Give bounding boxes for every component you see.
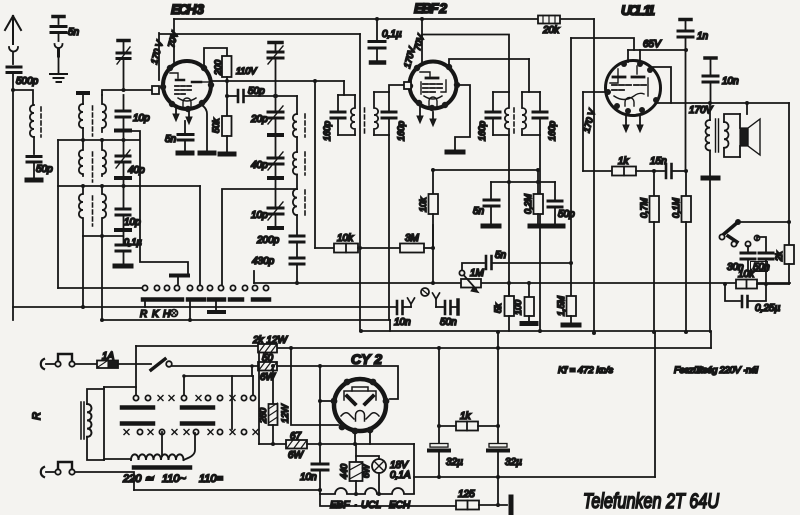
tone switch contacts <box>719 234 724 239</box>
wire IF2 secondary to EBF2 grid <box>389 85 404 92</box>
wire EBF2 screen feed lower <box>421 36 423 62</box>
resistor 2k <box>785 245 795 264</box>
pickup jack Y right <box>433 293 440 299</box>
svg-text:1M: 1M <box>470 268 485 279</box>
wire 200 bottom to 50k <box>226 77 228 116</box>
antenna <box>5 16 21 44</box>
node rail to EBF2 <box>420 17 424 21</box>
svg-text:H: H <box>163 309 171 320</box>
svg-text:110~: 110~ <box>162 473 187 485</box>
svg-text:0,1A: 0,1A <box>390 470 411 481</box>
node <box>295 281 299 285</box>
resistor 200 <box>222 56 232 77</box>
capacitor 10n pickup <box>397 301 403 314</box>
tuning gang cap osc top bar <box>269 41 282 45</box>
svg-text:40p: 40p <box>251 160 268 171</box>
svg-text:EBF 2: EBF 2 <box>414 0 447 16</box>
svg-text:1n: 1n <box>697 31 709 42</box>
wire to band switch first contact <box>58 287 142 289</box>
node <box>100 138 104 142</box>
resistor 5k <box>505 296 515 316</box>
wire primary top <box>87 389 104 404</box>
antenna coupling hook <box>9 47 18 52</box>
svg-text:0,25µ: 0,25µ <box>755 303 780 314</box>
wire primary to ground <box>709 151 711 177</box>
chassis ground bar <box>509 497 514 514</box>
ground bar 5n <box>178 151 192 156</box>
node <box>250 364 254 368</box>
svg-text:430p: 430p <box>252 256 275 267</box>
node <box>684 48 688 52</box>
capacitor 5n <box>51 27 66 33</box>
wire junction line y140 <box>58 139 139 141</box>
capacitor 0.25u <box>725 284 740 301</box>
svg-text:1,5M: 1,5M <box>556 295 566 316</box>
variable trimmer capacitor <box>117 53 130 59</box>
svg-text:200: 200 <box>213 60 223 76</box>
capacitor 0.1u osc <box>116 245 130 251</box>
wire IF2 feed from 110V line <box>343 81 345 95</box>
voltage selector bars row1 <box>122 405 213 410</box>
node <box>684 330 688 334</box>
speaker <box>740 128 748 146</box>
IF3 left cell top <box>493 91 509 93</box>
wire primary bottom <box>87 437 104 460</box>
node <box>536 168 540 172</box>
resistor 3M <box>400 244 424 253</box>
node <box>225 79 229 83</box>
capacitor 40p trimmer <box>268 158 283 164</box>
wire mains bottom bus <box>134 489 320 491</box>
capacitor 32u second <box>489 444 507 448</box>
wire ECH3 plate feed <box>173 19 175 62</box>
wire selector feed top <box>136 345 258 347</box>
wire HT line y348 <box>277 347 711 349</box>
transformer primary core <box>81 402 84 439</box>
svg-text:2k: 2k <box>774 251 784 262</box>
wire tone caps to 10k <box>748 271 766 284</box>
svg-text:10p: 10p <box>124 217 141 228</box>
heater winding <box>104 458 131 460</box>
wire chassis bus y307 <box>13 306 396 308</box>
oscillator coil column top lead <box>296 96 298 114</box>
tube UCL11 pin stubs top <box>628 50 640 62</box>
svg-text:5n: 5n <box>495 250 507 261</box>
IF transformer 2 left cell top <box>338 94 355 96</box>
svg-text:200p: 200p <box>256 235 280 246</box>
dial lamp symbol small <box>171 310 178 317</box>
wire y477 <box>414 476 655 478</box>
mains switch <box>151 359 165 370</box>
node <box>182 374 186 378</box>
capacitor 50n tone <box>757 237 766 252</box>
svg-text:160p: 160p <box>547 121 557 141</box>
node <box>536 180 540 184</box>
wire selector box left <box>103 387 105 460</box>
wire grid line to ECH3 <box>102 90 152 95</box>
capacitor 160p IF2 left <box>337 95 339 110</box>
wire ECH3 plate to 200 <box>204 48 227 65</box>
svg-text:50p: 50p <box>558 209 575 220</box>
svg-text:160p: 160p <box>396 121 406 141</box>
wire UCL grid box <box>571 38 634 50</box>
wire B- rail y331 <box>361 330 711 332</box>
svg-text:0,1µ: 0,1µ <box>382 29 402 40</box>
capacitor 10p lower <box>123 186 125 207</box>
capacitor 1n <box>680 18 691 22</box>
wire heater dropper column <box>319 366 321 463</box>
resistor 10k NFB <box>723 282 727 286</box>
node <box>318 442 322 446</box>
wire 50p to ground <box>33 163 35 177</box>
svg-text:12W: 12W <box>280 403 290 423</box>
node <box>569 261 573 265</box>
wire columns down to switch <box>82 236 84 307</box>
wire UCL11 output 170V line <box>656 102 789 104</box>
node <box>431 281 435 285</box>
wire diode feed down <box>528 59 530 92</box>
node <box>225 94 229 98</box>
svg-text:5k: 5k <box>493 303 503 313</box>
wire IF3 primary down <box>508 135 510 296</box>
svg-text:Feszültség 220V ·nál: Feszültség 220V ·nál <box>674 365 759 376</box>
phono input circle <box>421 288 429 296</box>
wire trimmer to grid line <box>123 60 125 90</box>
svg-text:50n: 50n <box>440 317 457 328</box>
resistor 440 6W <box>355 444 357 462</box>
svg-text:Telefunken 2T 64U: Telefunken 2T 64U <box>583 490 720 513</box>
grid connector EBF2 <box>404 82 411 89</box>
node <box>353 442 357 446</box>
node <box>359 329 363 333</box>
capacitor 430p <box>290 258 304 264</box>
svg-text:Kf = 472 kc/s: Kf = 472 kc/s <box>558 365 613 376</box>
svg-text:3M: 3M <box>405 233 420 244</box>
output transformer primary <box>709 103 711 120</box>
heater chain bumps EBF UCL ECH <box>320 488 414 494</box>
wire gang line <box>160 33 360 35</box>
capacitor 160p IF3 left <box>492 92 494 110</box>
node antenna junction <box>11 88 15 92</box>
resistor 1k <box>612 167 636 176</box>
tube EBF2 envelope <box>410 62 457 109</box>
capacitor 10n <box>703 76 718 82</box>
core section2 <box>92 152 94 182</box>
terminal bar 0.1u <box>371 60 384 65</box>
svg-text:5n: 5n <box>165 134 177 145</box>
ground bar 50k <box>220 152 234 157</box>
wire CY2 cathode bottom leads <box>355 433 370 444</box>
grid connector ECH3 <box>152 86 159 94</box>
wire osc line y189 <box>222 189 297 285</box>
ground bar EBF2 <box>447 150 463 155</box>
capacitor 160p IF2 right <box>388 92 390 110</box>
wire top rail B+ <box>174 18 594 20</box>
output transformer core <box>716 119 719 152</box>
wire plug bottom to bus <box>75 472 134 490</box>
wire 1n junction down <box>685 50 687 171</box>
wire 32u column 2 <box>497 332 499 445</box>
node <box>787 220 791 224</box>
svg-text:1k: 1k <box>618 156 630 167</box>
svg-text:0,7M: 0,7M <box>639 197 649 218</box>
svg-text:50p: 50p <box>36 164 53 175</box>
svg-text:6W: 6W <box>361 463 371 478</box>
node <box>437 346 441 350</box>
svg-text:5n: 5n <box>68 27 80 38</box>
resistor 100 <box>528 283 530 297</box>
capacitor 32u first <box>430 444 448 448</box>
ground bar 0.2M <box>530 224 546 229</box>
ground bar 50p <box>547 224 563 229</box>
svg-text:125: 125 <box>458 489 475 500</box>
svg-text:160p: 160p <box>477 121 487 141</box>
svg-text:10n: 10n <box>300 472 317 483</box>
output transformer secondary <box>724 122 729 148</box>
wire EBF2 screen feed <box>421 19 423 36</box>
svg-text:100: 100 <box>513 300 523 315</box>
wire UCL11 plate box right <box>650 67 671 103</box>
wire 2k12W vertical drop <box>291 348 338 425</box>
wire bracket left of coils <box>57 140 59 288</box>
node <box>289 346 293 350</box>
node <box>496 424 500 428</box>
wire 32u column 1 <box>438 348 440 445</box>
heater winding center tap <box>161 432 163 456</box>
svg-text:10k: 10k <box>418 197 428 212</box>
wire gang to 20p column <box>275 59 277 112</box>
node <box>273 94 277 98</box>
wire ECH3 cathode to ground <box>203 106 207 151</box>
svg-text:65V: 65V <box>643 39 662 50</box>
svg-text:R: R <box>140 309 147 320</box>
capacitor 160p IF3 right <box>539 92 541 110</box>
resistor 50k <box>222 116 232 136</box>
svg-text:260: 260 <box>258 408 268 424</box>
svg-text:110V: 110V <box>236 66 257 76</box>
core section1 <box>92 106 94 136</box>
wire drops to selector <box>184 376 253 429</box>
node <box>100 318 104 322</box>
resistor 260 12W <box>272 366 274 404</box>
resistor 10k AVC <box>432 170 434 194</box>
wire right HT down <box>788 103 790 245</box>
capacitor 10p top <box>123 95 125 109</box>
node <box>318 488 322 492</box>
svg-text:32µ: 32µ <box>446 457 463 468</box>
ground bar below 50p <box>27 178 41 183</box>
node <box>188 318 192 322</box>
capacitor 5n AF coupling <box>462 263 484 270</box>
node <box>496 475 500 479</box>
wire switch bar drop <box>189 302 191 320</box>
wire switch bar stem <box>144 302 146 307</box>
svg-text:160p: 160p <box>322 121 332 141</box>
wire to 1k <box>583 170 612 172</box>
wire UCL11 grid-cathode left <box>583 91 605 93</box>
trimmer top bar <box>118 39 129 43</box>
node <box>507 180 511 184</box>
tube ECH3 cathode leads <box>175 107 177 115</box>
node <box>271 442 275 446</box>
svg-text:10p: 10p <box>133 113 150 124</box>
IF2 right cell top <box>374 91 389 93</box>
node <box>431 246 435 250</box>
capacitor 20p trimmer <box>268 112 283 118</box>
svg-text:220 ≃: 220 ≃ <box>122 473 154 485</box>
node <box>313 79 317 83</box>
svg-text:20p: 20p <box>250 114 268 125</box>
mains plug bottom <box>41 467 44 477</box>
node <box>496 346 500 350</box>
wire long vertical osc feed <box>359 34 361 331</box>
wire IF3 secondary to detector <box>539 135 541 332</box>
coil L1 antenna primary <box>30 105 34 137</box>
wire to antenna coil <box>13 90 33 105</box>
wire chassis bus y320 <box>102 319 390 321</box>
band switch T contact above <box>177 277 179 284</box>
ground bar <box>115 264 131 269</box>
resistor 10k osc <box>315 247 334 249</box>
node <box>708 101 712 105</box>
wire antenna down-lead <box>12 74 14 320</box>
capacitor 10n top bar <box>705 56 716 60</box>
tube UCL11 pins <box>605 61 659 114</box>
resistor 0.1M <box>685 171 687 196</box>
voltage selector bars row2 <box>122 421 213 426</box>
wire volume line y283 <box>254 282 790 284</box>
capacitor 40p variable <box>123 140 125 154</box>
resistor 0.7M <box>653 171 655 196</box>
core IF3 <box>513 108 515 136</box>
node <box>81 138 85 142</box>
svg-text:32µ: 32µ <box>505 457 522 468</box>
mains plug top <box>41 359 44 369</box>
tube EBF2 cathode leads with arrows <box>419 107 421 117</box>
wire coil to 50p <box>33 137 35 154</box>
node <box>745 101 749 105</box>
ground bar 5n AVC <box>483 224 499 229</box>
wire right box verticals <box>654 332 656 477</box>
voltage selector row1 <box>133 395 255 400</box>
coil osc 2 <box>293 152 297 175</box>
svg-text:ECH 3: ECH 3 <box>171 1 204 17</box>
wire heater box right <box>413 444 415 493</box>
svg-text:0,1M: 0,1M <box>671 197 681 218</box>
node <box>437 475 441 479</box>
capacitor 0.1u decoupling <box>375 17 379 21</box>
ground bar cathode <box>200 151 214 156</box>
capacitor 50p coupling <box>227 95 236 97</box>
capacitor 30n <box>747 246 749 252</box>
svg-text:10n: 10n <box>394 317 411 328</box>
svg-text:1k: 1k <box>460 411 472 422</box>
node <box>652 169 656 173</box>
svg-text:440: 440 <box>339 464 349 479</box>
node <box>764 282 768 286</box>
capacitor 200p <box>290 236 304 242</box>
svg-text:UCL 11: UCL 11 <box>621 2 655 18</box>
node rail <box>538 329 542 333</box>
svg-text:500p: 500p <box>16 76 39 87</box>
tube ECH3 internal electrodes <box>170 73 210 107</box>
pot wiper terminal <box>459 270 464 275</box>
svg-text:40p: 40p <box>128 165 145 176</box>
node <box>100 184 104 188</box>
wire 3M junction drop <box>432 225 434 283</box>
pickup jack Y left <box>404 306 411 308</box>
variable capacitor gang <box>268 52 283 58</box>
wire 50 to CY2 anode <box>277 366 398 399</box>
ground bar 100 <box>522 321 536 326</box>
coil IF2 primary <box>351 95 355 135</box>
svg-text:10k: 10k <box>738 269 755 280</box>
wire secondary to speaker <box>724 114 740 157</box>
wire fuse to switch <box>118 363 151 365</box>
wire bottom of coil stack <box>83 235 123 237</box>
coil section2 left <box>79 140 83 176</box>
svg-text:6W: 6W <box>288 450 305 461</box>
ground below 5n <box>50 74 67 82</box>
wire AVC y170 <box>433 169 538 171</box>
heater winding core bar <box>134 465 190 470</box>
resistor 0.2M <box>537 170 539 194</box>
wire switch to dropper <box>172 365 258 367</box>
tube CY2 pins <box>331 379 390 435</box>
resistor 20k <box>538 16 560 24</box>
svg-text:5n: 5n <box>473 206 485 217</box>
wire speaker feed <box>746 103 748 114</box>
capacitor 50p diode load <box>554 182 556 199</box>
node <box>318 399 322 403</box>
band switch wafer bars <box>143 297 269 302</box>
tube UCL11 heater leads arrows <box>625 116 627 126</box>
tube UCL11 internal electrodes <box>610 66 648 106</box>
wire EBF2 plate <box>449 59 529 64</box>
ground bar transformer <box>703 176 718 181</box>
wire 65V line <box>628 49 686 51</box>
wire tone bus vertical <box>709 180 711 332</box>
coil IF3 secondary <box>522 92 526 135</box>
wire EBF2 screen cathode to ground <box>455 85 470 150</box>
capacitor 50n pickup <box>436 306 443 308</box>
capacitor 15n <box>666 164 672 178</box>
wire 20k down AVC feed <box>593 19 595 333</box>
svg-text:110=: 110= <box>199 473 224 485</box>
node <box>354 492 358 496</box>
capacitor 10p trimmer <box>268 208 283 214</box>
svg-text:0,2M: 0,2M <box>523 193 533 214</box>
wire CY2 cathode left <box>320 400 334 402</box>
node <box>274 94 278 98</box>
svg-text:0,1µ: 0,1µ <box>124 237 142 247</box>
node <box>81 184 85 188</box>
wire heater return y506 <box>320 494 456 506</box>
svg-text:20k: 20k <box>542 25 560 36</box>
node trimmer junction <box>122 88 126 92</box>
wire IF2 down lead <box>388 135 390 320</box>
coil osc 3 <box>293 189 297 215</box>
svg-text:CY 2: CY 2 <box>351 351 382 367</box>
core IF2 <box>364 108 366 136</box>
coil section3 left <box>79 186 83 236</box>
tube ECH3 pins <box>160 65 214 112</box>
node <box>431 168 435 172</box>
capacitor 10n heater <box>312 464 328 470</box>
wire ECH3 grid corner <box>158 33 160 80</box>
band switch T contact below <box>215 302 217 310</box>
coil IF3 primary <box>505 92 509 135</box>
